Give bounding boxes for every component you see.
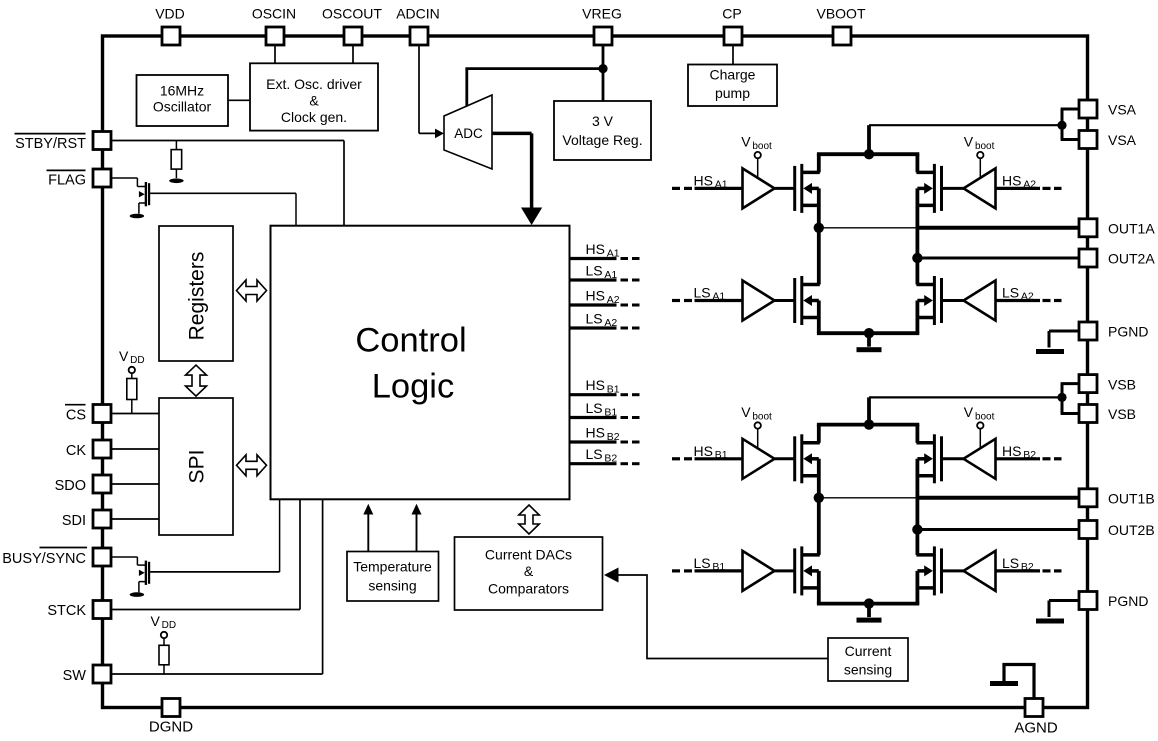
svg-text:Charge: Charge bbox=[710, 67, 756, 83]
svg-text:Temperature: Temperature bbox=[353, 559, 432, 575]
svg-text:Current DACs: Current DACs bbox=[485, 547, 572, 563]
svg-text:Clock gen.: Clock gen. bbox=[281, 109, 347, 125]
svg-text:CP: CP bbox=[722, 6, 741, 22]
svg-text:STCK: STCK bbox=[47, 603, 86, 619]
svg-text:FLAG: FLAG bbox=[48, 173, 86, 189]
svg-text:BUSY/SYNC: BUSY/SYNC bbox=[2, 551, 86, 567]
svg-text:3 V: 3 V bbox=[592, 113, 614, 129]
svg-text:VSA: VSA bbox=[1108, 102, 1137, 118]
svg-text:Registers: Registers bbox=[186, 252, 209, 341]
svg-text:PGND: PGND bbox=[1108, 324, 1148, 340]
svg-text:Voltage Reg.: Voltage Reg. bbox=[562, 132, 642, 148]
svg-text:Ext. Osc. driver: Ext. Osc. driver bbox=[266, 76, 362, 92]
svg-text:VREG: VREG bbox=[582, 6, 622, 22]
svg-text:Oscillator: Oscillator bbox=[153, 99, 212, 115]
svg-text:CK: CK bbox=[66, 443, 86, 459]
svg-text:ADCIN: ADCIN bbox=[396, 6, 440, 22]
svg-text:OUT1A: OUT1A bbox=[1108, 221, 1155, 237]
svg-text:Current: Current bbox=[845, 643, 892, 659]
svg-text:SPI: SPI bbox=[186, 450, 209, 484]
svg-text:sensing: sensing bbox=[368, 578, 416, 594]
svg-text:VDD: VDD bbox=[155, 6, 185, 22]
svg-text:ADC: ADC bbox=[454, 126, 483, 141]
svg-text:VSA: VSA bbox=[1108, 132, 1137, 148]
svg-text:AGND: AGND bbox=[1014, 720, 1058, 737]
svg-text:PGND: PGND bbox=[1108, 593, 1148, 609]
svg-text:OUT2B: OUT2B bbox=[1108, 522, 1155, 538]
svg-text:VBOOT: VBOOT bbox=[816, 6, 865, 22]
svg-text:Control: Control bbox=[355, 322, 466, 360]
svg-text:Comparators: Comparators bbox=[488, 581, 569, 597]
svg-text:pump: pump bbox=[715, 85, 750, 101]
svg-text:Logic: Logic bbox=[372, 368, 454, 406]
svg-text:VSB: VSB bbox=[1108, 376, 1136, 392]
svg-text:CS: CS bbox=[66, 407, 86, 423]
svg-text:VSB: VSB bbox=[1108, 406, 1136, 422]
svg-text:OSCOUT: OSCOUT bbox=[322, 6, 382, 22]
svg-text:SW: SW bbox=[63, 668, 87, 684]
svg-text:OSCIN: OSCIN bbox=[252, 6, 296, 22]
svg-text:STBY/RST: STBY/RST bbox=[15, 136, 86, 152]
svg-text:&: & bbox=[524, 563, 534, 579]
svg-text:OUT1B: OUT1B bbox=[1108, 491, 1155, 507]
svg-text:SDI: SDI bbox=[62, 513, 86, 529]
svg-text:16MHz: 16MHz bbox=[160, 83, 204, 99]
svg-text:&: & bbox=[309, 93, 319, 109]
svg-text:DGND: DGND bbox=[149, 719, 193, 736]
svg-text:OUT2A: OUT2A bbox=[1108, 251, 1155, 267]
svg-text:SDO: SDO bbox=[55, 478, 86, 494]
svg-text:sensing: sensing bbox=[844, 662, 892, 678]
